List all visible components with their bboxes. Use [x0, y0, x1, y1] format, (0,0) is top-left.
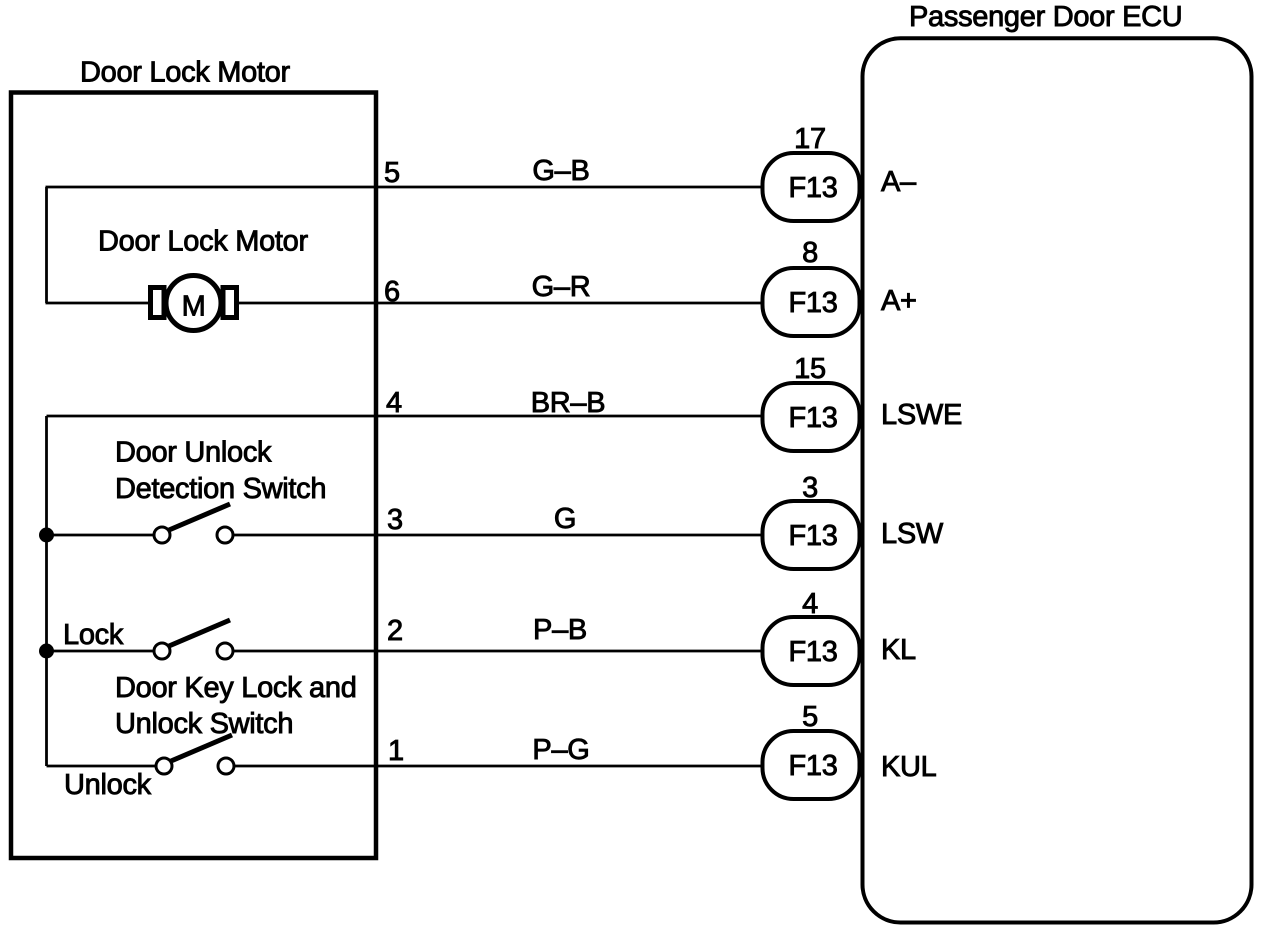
svg-text:Lock: Lock	[63, 619, 124, 651]
svg-text:4: 4	[802, 588, 818, 620]
svg-text:Door Lock Motor: Door Lock Motor	[80, 57, 290, 89]
wire vertical motor loop	[45, 187, 48, 303]
svg-text:Detection Switch: Detection Switch	[115, 473, 326, 505]
svg-text:17: 17	[794, 123, 826, 155]
svg-text:LSW: LSW	[881, 518, 944, 550]
svg-text:1: 1	[388, 735, 404, 767]
svg-text:F13: F13	[788, 402, 837, 434]
switch S3 arm	[171, 735, 232, 761]
svg-text:15: 15	[794, 353, 826, 385]
wire 4 BR-B (switch common to F13 pin 15)	[47, 415, 762, 418]
wire vertical switch common bus	[45, 416, 48, 766]
svg-text:8: 8	[802, 237, 818, 269]
svg-text:F13: F13	[788, 520, 837, 552]
connector F13 pin 5	[763, 731, 860, 799]
svg-text:6: 6	[384, 276, 400, 308]
svg-text:F13: F13	[788, 287, 837, 319]
svg-text:2: 2	[387, 615, 403, 647]
switch S2 left contact	[154, 643, 170, 659]
svg-text:G: G	[554, 503, 576, 535]
switch S2 right contact	[217, 643, 233, 659]
svg-text:P–G: P–G	[532, 734, 589, 766]
connector F13 pin 4	[763, 617, 860, 685]
switch S3 right contact	[218, 758, 234, 774]
svg-text:A–: A–	[881, 166, 917, 198]
motor M1 left brush	[151, 288, 165, 318]
connector F13 pin 17	[763, 153, 860, 221]
switch S3 left contact	[156, 758, 172, 774]
wire 3 G (unlock detection switch to F13 pin 3)	[47, 534, 762, 537]
svg-text:F13: F13	[788, 750, 837, 782]
svg-text:P–B: P–B	[533, 614, 587, 646]
svg-text:LSWE: LSWE	[881, 399, 962, 431]
svg-text:Unlock: Unlock	[64, 769, 152, 801]
motor M1 body	[166, 276, 221, 331]
svg-text:Door Unlock: Door Unlock	[115, 437, 272, 469]
connector F13 pin 3	[763, 501, 860, 569]
wire 6 G-R (motor terminal 6 to F13 pin 8)	[46, 302, 762, 305]
junction dot node at wire 3	[39, 528, 54, 543]
svg-text:M: M	[182, 291, 206, 323]
svg-text:3: 3	[387, 504, 403, 536]
Passenger Door ECU box U1	[863, 38, 1252, 922]
motor M1 right brush	[223, 288, 237, 318]
door lock motor assembly box	[11, 93, 376, 859]
svg-text:5: 5	[802, 701, 818, 733]
svg-text:Door Key Lock and: Door Key Lock and	[115, 672, 357, 704]
svg-text:KL: KL	[881, 634, 916, 666]
switch S1 left contact	[154, 527, 170, 543]
svg-text:Unlock Switch: Unlock Switch	[115, 708, 293, 740]
svg-text:G–R: G–R	[532, 271, 591, 303]
junction dot node at wire 2	[39, 644, 54, 659]
svg-text:KUL: KUL	[881, 751, 937, 783]
switch S1 right contact	[217, 527, 233, 543]
connector F13 pin 8	[763, 268, 860, 336]
svg-text:Passenger Door ECU: Passenger Door ECU	[909, 1, 1182, 33]
svg-text:3: 3	[802, 472, 818, 504]
wire 5 G-B (motor terminal 5 to F13 pin 17)	[46, 186, 762, 189]
svg-text:4: 4	[386, 387, 402, 419]
svg-text:G–B: G–B	[532, 155, 589, 187]
svg-text:5: 5	[384, 157, 400, 189]
connector F13 pin 15	[763, 383, 860, 451]
svg-text:F13: F13	[788, 636, 837, 668]
wire 1 P-G (unlock switch to F13 pin 5)	[47, 765, 762, 768]
svg-text:BR–B: BR–B	[531, 387, 606, 419]
svg-text:F13: F13	[788, 172, 837, 204]
wire 2 P-B (lock switch to F13 pin 4)	[47, 650, 762, 653]
svg-text:A+: A+	[881, 285, 917, 317]
switch S1 arm	[169, 504, 230, 530]
svg-text:Door Lock Motor: Door Lock Motor	[98, 226, 308, 258]
switch S2 arm	[169, 620, 230, 646]
